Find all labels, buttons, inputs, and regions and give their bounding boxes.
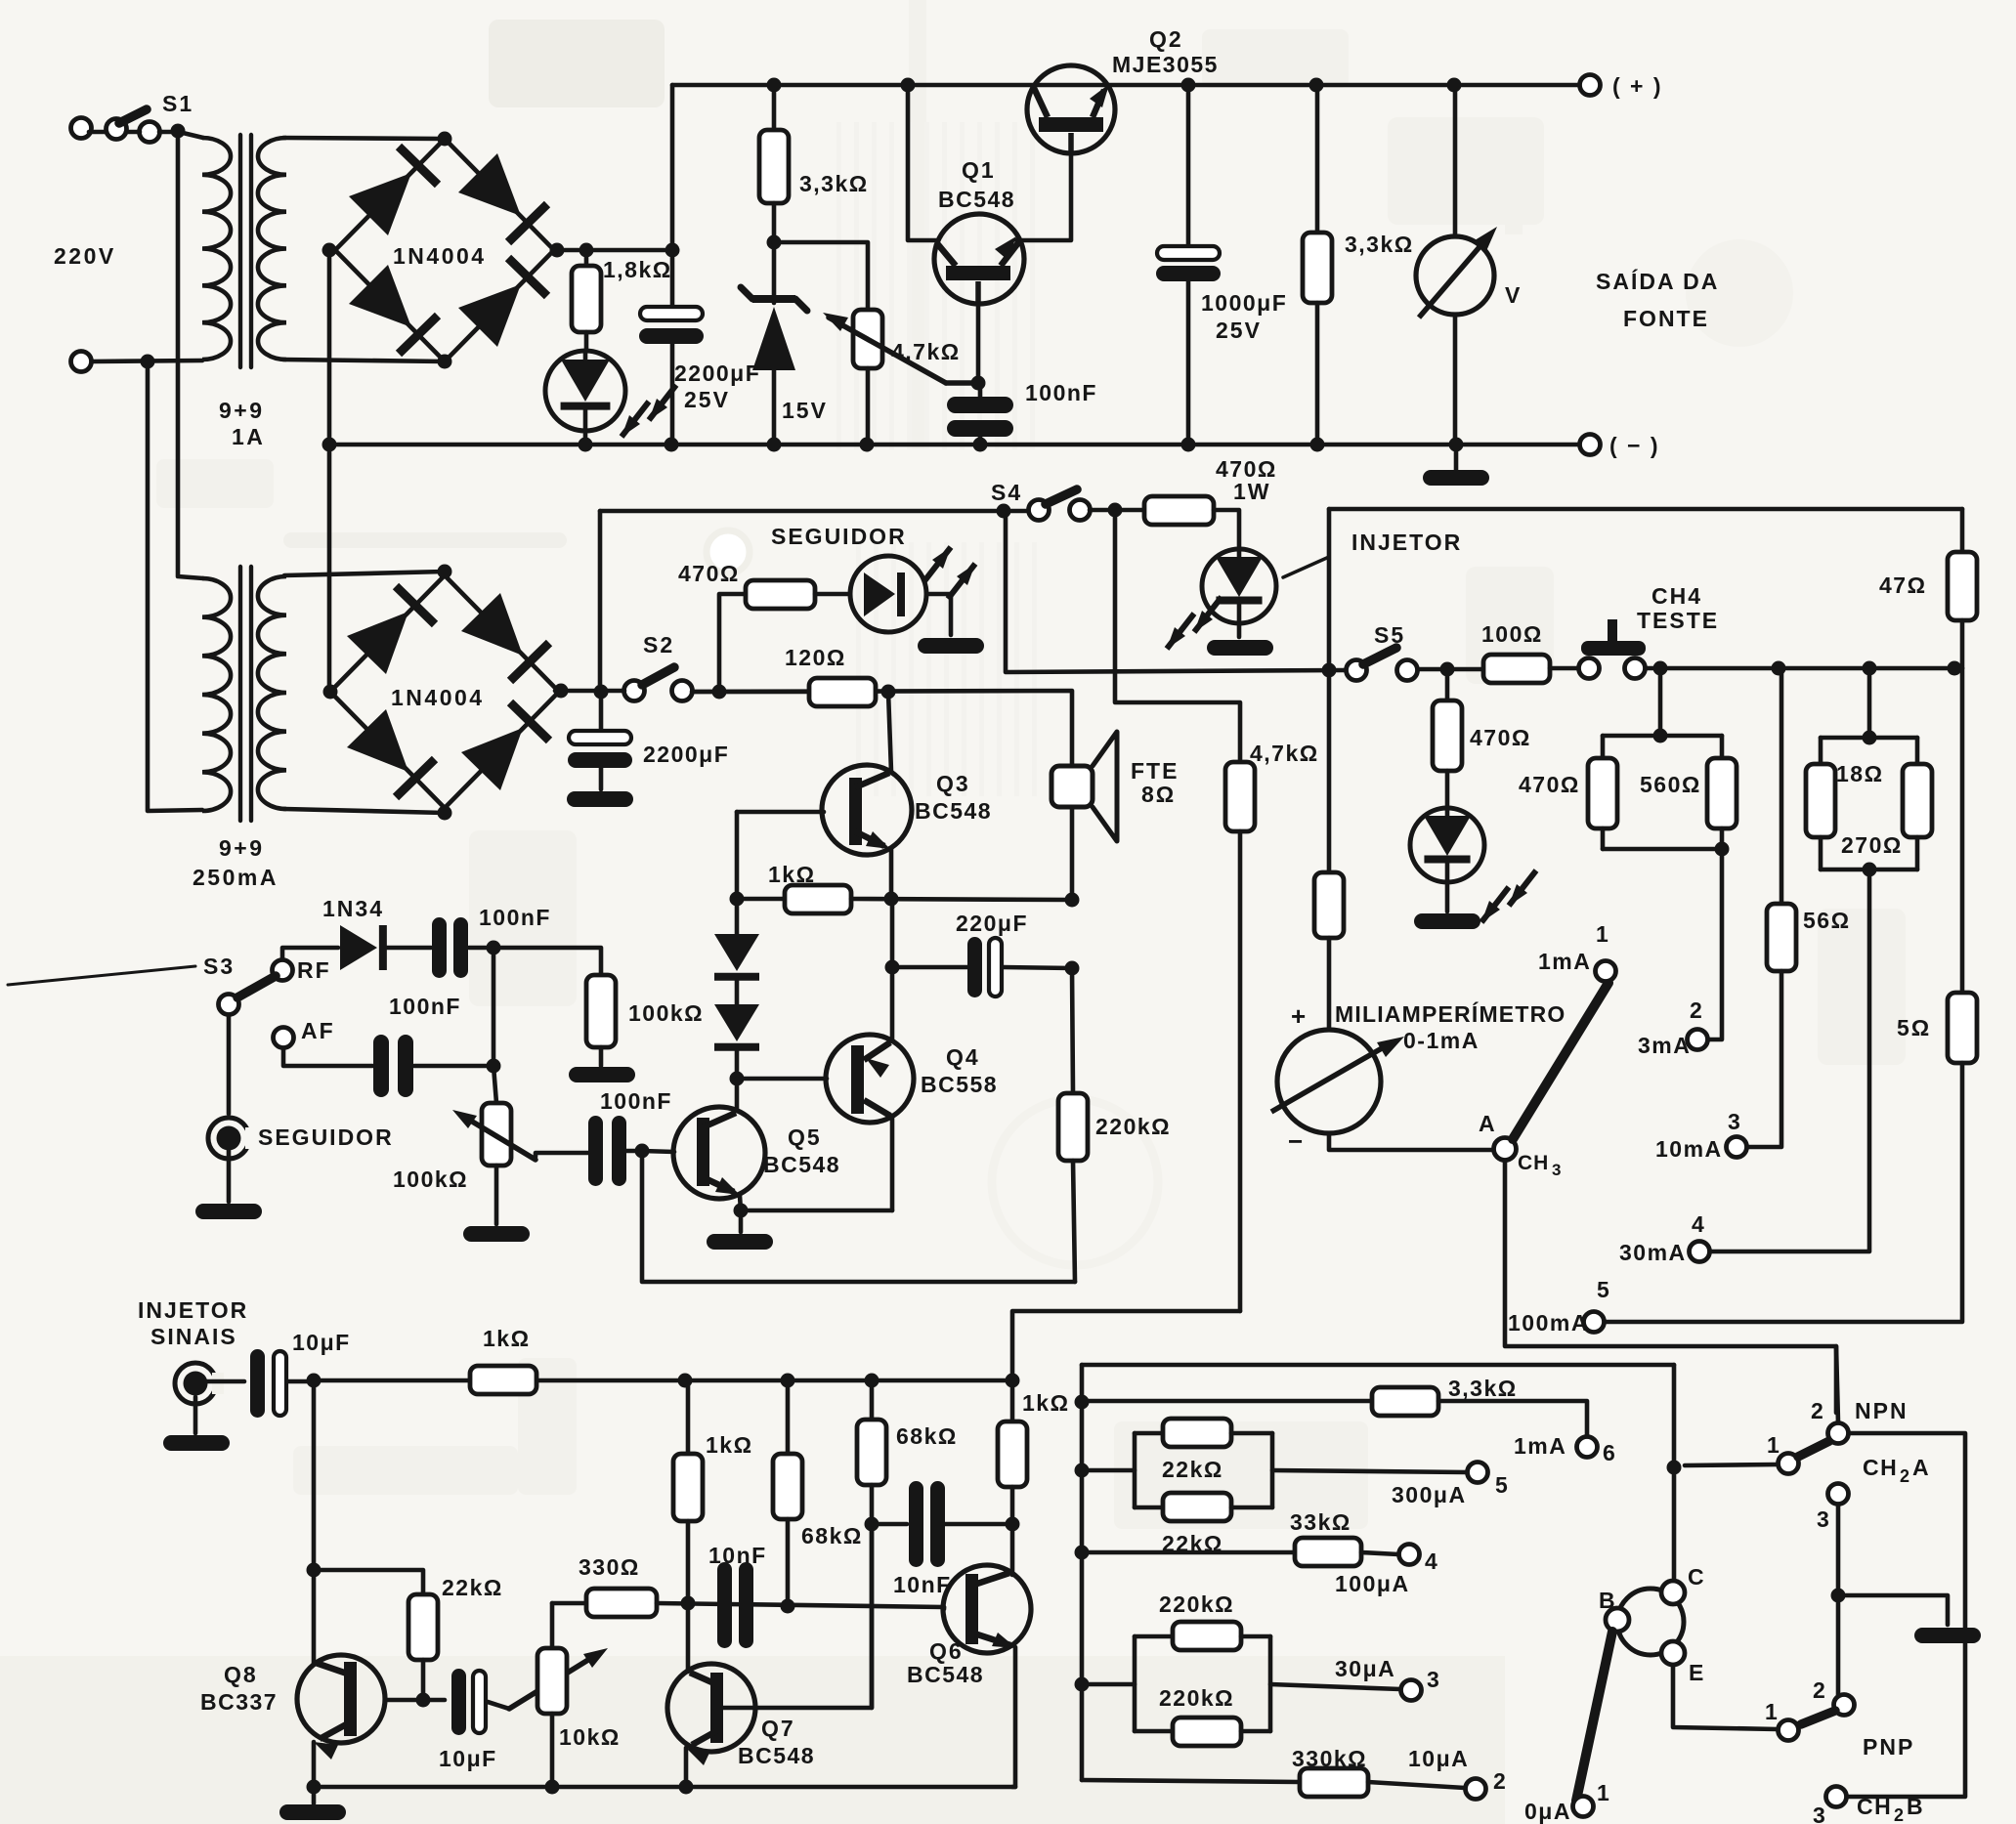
- switch CH2B PNP contact2: [1834, 1695, 1855, 1716]
- switch S5: [1347, 660, 1367, 681]
- ground pot 100k: [463, 1226, 530, 1242]
- pot wiper arrow to zener: [946, 380, 978, 386]
- svg-text:Q4: Q4: [946, 1044, 980, 1070]
- resistor 1k Q7 collector: [686, 1380, 691, 1454]
- ground seguidor LED: [918, 638, 984, 654]
- capacitor 10nF left: [717, 1562, 732, 1648]
- diode D3: [735, 899, 740, 934]
- ground 100k rf: [569, 1067, 635, 1082]
- wire Q6 base: [942, 1607, 947, 1609]
- wire 560 pair to 3mA: [1708, 849, 1722, 1039]
- transistor Q6 BC548: [1010, 1524, 1015, 1575]
- wire S4 line down to S2: [598, 511, 603, 692]
- svg-text:220kΩ: 220kΩ: [1159, 1685, 1234, 1711]
- transistor Q4 BC558: [826, 1035, 914, 1123]
- svg-text:SINAIS: SINAIS: [150, 1324, 237, 1349]
- wire S1 down to T2 primary: [178, 131, 203, 578]
- capacitor 220uF: [892, 965, 968, 970]
- node bus 22k: [1075, 1463, 1090, 1478]
- wire rf out to 100k: [493, 948, 601, 975]
- ground Q8: [312, 1787, 317, 1803]
- transformer T1 core: [238, 135, 242, 367]
- injector box left edge: [1327, 509, 1332, 670]
- svg-text:220kΩ: 220kΩ: [1095, 1114, 1171, 1139]
- svg-text:1kΩ: 1kΩ: [706, 1432, 753, 1458]
- svg-text:25V: 25V: [684, 387, 730, 412]
- wire Q5 base: [642, 1151, 674, 1152]
- svg-text:Q3: Q3: [936, 771, 970, 796]
- switch CH2A NPN contact: [1828, 1423, 1849, 1444]
- wire Q7 base: [723, 1524, 872, 1708]
- wire Q8 base right: [386, 1698, 445, 1703]
- svg-text:SEGUIDOR: SEGUIDOR: [771, 524, 907, 549]
- resistor meter series: [1314, 872, 1344, 938]
- svg-text:1: 1: [1597, 1780, 1611, 1805]
- node test row d: [1948, 661, 1962, 676]
- wire S2 to 120R: [692, 690, 809, 695]
- wire node down to T2 primary bottom: [148, 361, 202, 811]
- speaker FTE 8R: [1051, 766, 1093, 807]
- resistor 1k oscillator: [737, 897, 785, 902]
- svg-text:56Ω: 56Ω: [1803, 908, 1851, 933]
- capacitor 100nF Q1 base: [978, 383, 983, 397]
- svg-text:10μA: 10μA: [1408, 1746, 1469, 1771]
- node rf cap out: [487, 941, 501, 955]
- svg-text:Q8: Q8: [224, 1662, 258, 1687]
- ground Q5: [739, 1210, 744, 1232]
- svg-text:2200μF: 2200μF: [674, 361, 760, 386]
- svg-text:3,3kΩ: 3,3kΩ: [799, 171, 869, 196]
- socket terminal E: [1661, 1641, 1685, 1665]
- wire S4 feed line: [600, 509, 1029, 514]
- wire S1 to transformer: [89, 130, 107, 135]
- resistor 4.7k speaker feed: [1115, 510, 1240, 762]
- wire jack to cap: [207, 1379, 244, 1384]
- svg-text:0μA: 0μA: [1524, 1799, 1571, 1824]
- wire ground branch: [1838, 1595, 1948, 1625]
- capacitor 100nF to Q5: [588, 1116, 603, 1186]
- svg-text:2: 2: [1811, 1398, 1825, 1423]
- jack injetor center: [184, 1372, 208, 1396]
- svg-text:470Ω: 470Ω: [678, 561, 740, 586]
- switch CH2B position1: [1779, 1720, 1799, 1741]
- svg-text:10μF: 10μF: [292, 1330, 351, 1355]
- bridge rectifier B1 1N4004: [335, 139, 445, 250]
- terminal 3mA 2: [1688, 1030, 1708, 1050]
- node filter cap top: [665, 243, 680, 258]
- node test row c: [1863, 661, 1877, 676]
- node af cap out: [487, 1059, 501, 1074]
- node 2200uF bottom rail: [665, 438, 679, 452]
- transistor socket DUT: [1617, 1589, 1684, 1655]
- node bridge B1 left: [322, 243, 337, 258]
- potentiometer 10k: [550, 1603, 555, 1648]
- node Q3 emitter row: [884, 892, 899, 907]
- svg-text:TESTE: TESTE: [1637, 608, 1719, 633]
- ground under voltmeter: [1454, 445, 1459, 471]
- svg-text:1: 1: [1767, 1432, 1781, 1458]
- switch S2: [594, 685, 609, 700]
- wire Q1 emitter to Q2 base: [1016, 154, 1071, 240]
- svg-text:220V: 220V: [54, 243, 116, 269]
- light arrows LED power: [622, 402, 649, 437]
- svg-text:BC548: BC548: [915, 798, 992, 824]
- wire Q4 collector down: [890, 1116, 895, 1210]
- wire jack to ground: [227, 1151, 232, 1202]
- svg-text:1N34: 1N34: [322, 896, 384, 921]
- resistor 68k first: [870, 1380, 875, 1420]
- svg-text:MILIAMPERÍMETRO: MILIAMPERÍMETRO: [1335, 1000, 1566, 1027]
- terminal output plus: [1580, 75, 1601, 96]
- terminal input lower: [71, 352, 92, 372]
- terminal RF: [273, 960, 293, 981]
- switch CH2A position3: [1828, 1484, 1849, 1505]
- row 22k pair 300uA: [1082, 1468, 1135, 1473]
- terminal 10mA 3: [1727, 1137, 1747, 1158]
- zener diode 15V: [772, 242, 777, 303]
- socket terminal B: [1606, 1608, 1629, 1632]
- capacitor 100nF rf: [432, 917, 447, 978]
- svg-text:220kΩ: 220kΩ: [1159, 1591, 1234, 1617]
- terminal 1mA 6: [1577, 1437, 1598, 1458]
- svg-text:BC558: BC558: [921, 1072, 998, 1097]
- svg-text:S2: S2: [643, 632, 674, 657]
- wire Q3 base column: [735, 812, 740, 899]
- svg-text:SAÍDA DA: SAÍDA DA: [1596, 268, 1719, 294]
- svg-text:2: 2: [1894, 1805, 1905, 1824]
- wire bridge B1 left corner to negative rail: [329, 250, 333, 445]
- resistor pair 18R 270R: [1867, 668, 1872, 738]
- svg-text:15V: 15V: [782, 398, 828, 423]
- wire wiper to cap: [536, 1153, 588, 1157]
- node pot bottom rail: [545, 1780, 560, 1795]
- node bridge B2 top: [438, 565, 452, 579]
- svg-text:1,8kΩ: 1,8kΩ: [603, 257, 672, 282]
- svg-text:( + ): ( + ): [1612, 73, 1663, 99]
- node bridge B2 left: [323, 685, 338, 700]
- svg-text:1kΩ: 1kΩ: [768, 862, 816, 887]
- svg-text:3: 3: [1817, 1506, 1831, 1532]
- bridge rectifier B2 1N4004: [284, 572, 445, 575]
- svg-text:9+9: 9+9: [219, 398, 265, 423]
- svg-text:1mA: 1mA: [1514, 1433, 1566, 1459]
- svg-text:FONTE: FONTE: [1623, 306, 1709, 331]
- ground CH2: [1914, 1628, 1981, 1643]
- transformer T2 secondary winding: [258, 576, 286, 809]
- svg-text:0-1mA: 0-1mA: [1403, 1028, 1480, 1053]
- resistor 5R right edge: [1960, 668, 1965, 993]
- light arrows LED injetor: [1167, 614, 1194, 649]
- terminal 1mA position 1: [1596, 961, 1616, 982]
- positive supply rail: [672, 83, 1580, 88]
- svg-text:100μA: 100μA: [1335, 1571, 1410, 1596]
- network top edge: [1082, 1363, 1674, 1368]
- jack seguidor outer: [208, 1118, 249, 1159]
- svg-text:A: A: [1912, 1455, 1931, 1480]
- wire up to positive rail: [670, 85, 675, 250]
- svg-text:Q6: Q6: [929, 1638, 964, 1664]
- node 470 drop: [1440, 662, 1455, 677]
- svg-text:3,3kΩ: 3,3kΩ: [1448, 1376, 1518, 1401]
- svg-text:1kΩ: 1kΩ: [483, 1326, 531, 1351]
- pot 10k wiper arrow: [509, 1655, 596, 1709]
- transistor Q1 BC548: [934, 214, 1024, 304]
- resistor 1.8k: [584, 250, 589, 266]
- svg-text:6: 6: [1603, 1440, 1617, 1465]
- node CH2A feed: [1667, 1461, 1682, 1475]
- svg-text:3: 3: [1728, 1109, 1742, 1134]
- resistor 1k Q6 collector: [1010, 1380, 1015, 1421]
- terminal 100mA 5: [1584, 1312, 1605, 1333]
- row 3.3k 1mA: [1082, 1399, 1372, 1404]
- transistor Q2 MJE3055: [1027, 65, 1115, 153]
- svg-text:4: 4: [1425, 1548, 1439, 1574]
- node S5 to meter branch: [1322, 663, 1337, 678]
- ground LED injetor: [1207, 640, 1273, 656]
- node Q4 base: [730, 1072, 745, 1086]
- node bridge B2 bottom: [438, 806, 452, 821]
- svg-text:4: 4: [1692, 1211, 1706, 1237]
- pot 100k wiper arrow: [464, 1117, 536, 1160]
- svg-text:3,3kΩ: 3,3kΩ: [1345, 232, 1414, 257]
- node zener bottom rail: [767, 438, 782, 452]
- svg-text:BC548: BC548: [938, 187, 1015, 212]
- wire Q1 base down: [976, 304, 981, 383]
- LED test indicator: [1410, 808, 1484, 882]
- node Q5 base: [635, 1144, 650, 1159]
- svg-text:AF: AF: [301, 1018, 335, 1043]
- svg-text:INJETOR: INJETOR: [138, 1297, 248, 1323]
- svg-text:2: 2: [1690, 997, 1704, 1023]
- svg-text:S3: S3: [203, 954, 235, 979]
- svg-text:5Ω: 5Ω: [1897, 1015, 1931, 1040]
- wire bridge B2 right to S2: [555, 689, 624, 694]
- node bus 33k: [1075, 1546, 1090, 1560]
- svg-text:330Ω: 330Ω: [579, 1554, 640, 1580]
- capacitor 10uF Q8 out: [451, 1669, 466, 1735]
- svg-text:3: 3: [1813, 1803, 1827, 1824]
- transistor Q3 BC548: [888, 692, 891, 772]
- svg-text:INJETOR: INJETOR: [1351, 530, 1462, 555]
- svg-text:3: 3: [1427, 1667, 1441, 1692]
- rotary CH3 pivot: [1494, 1138, 1517, 1161]
- wire pot bottom to ground: [494, 1166, 499, 1224]
- node bus 3.3k: [1075, 1395, 1090, 1410]
- node zener top: [767, 235, 782, 250]
- svg-text:470Ω: 470Ω: [1519, 772, 1580, 797]
- svg-text:25V: 25V: [1216, 318, 1262, 343]
- meter circle miliamperimetro: [1277, 1030, 1381, 1133]
- wire rf-af junction down: [493, 948, 496, 1103]
- svg-text:SEGUIDOR: SEGUIDOR: [258, 1124, 394, 1150]
- node bridge B1 top: [438, 132, 452, 147]
- injector box top edge: [1329, 507, 1962, 512]
- svg-text:( − ): ( − ): [1609, 433, 1660, 458]
- node S1: [171, 124, 186, 139]
- node Q2 rail left: [1181, 78, 1196, 93]
- svg-text:22kΩ: 22kΩ: [1162, 1457, 1223, 1482]
- svg-text:S5: S5: [1374, 622, 1405, 648]
- svg-text:Q1: Q1: [962, 157, 996, 183]
- wire bus to CH2 column: [1672, 1365, 1677, 1467]
- switch CH2B lever: [1801, 1711, 1835, 1724]
- node Q8 base: [416, 1693, 431, 1708]
- transistor Q7 BC548: [686, 1603, 691, 1672]
- lever S3: [237, 976, 276, 997]
- wire rail up corner to 4.7k: [1012, 1311, 1240, 1380]
- node rail 68k2: [781, 1374, 795, 1388]
- resistor 22k: [408, 1594, 438, 1660]
- svg-text:10mA: 10mA: [1655, 1136, 1723, 1162]
- svg-text:22kΩ: 22kΩ: [442, 1575, 503, 1600]
- resistor pair 470R 560R: [1658, 668, 1663, 736]
- svg-text:FTE: FTE: [1131, 758, 1179, 784]
- ground 2200uF second: [567, 791, 633, 807]
- switch S3 pole: [219, 995, 239, 1015]
- svg-text:470Ω: 470Ω: [1470, 725, 1531, 750]
- svg-text:3mA: 3mA: [1638, 1033, 1691, 1058]
- diode 1N34: [340, 925, 377, 970]
- node voltmeter bottom rail: [1449, 438, 1464, 452]
- svg-text:1mA: 1mA: [1538, 949, 1591, 974]
- capacitor 100nF af: [373, 1035, 389, 1097]
- wire CH3 down: [1505, 1161, 1836, 1413]
- jack seguidor center: [217, 1126, 241, 1151]
- transformer T1 primary winding: [202, 138, 231, 360]
- svg-text:E: E: [1689, 1660, 1705, 1685]
- svg-text:−: −: [1288, 1126, 1304, 1156]
- svg-text:68kΩ: 68kΩ: [896, 1423, 958, 1449]
- row 330k 10uA: [1082, 1780, 1300, 1782]
- negative supply rail: [329, 443, 1580, 447]
- node lower: [141, 355, 155, 369]
- node 68k 10nF junction: [865, 1517, 879, 1532]
- terminal S1 third: [140, 122, 160, 143]
- wire T1 secondary bottom to bridge: [283, 360, 445, 361]
- svg-text:2200μF: 2200μF: [643, 742, 729, 767]
- svg-text:8Ω: 8Ω: [1141, 782, 1176, 807]
- wire speaker bottom: [1070, 807, 1075, 901]
- svg-text:4,7kΩ: 4,7kΩ: [1250, 741, 1319, 766]
- terminal 10uA 2: [1466, 1779, 1486, 1800]
- node S4 right: [1108, 503, 1123, 518]
- svg-text:1N4004: 1N4004: [391, 685, 485, 710]
- capacitor 2200uF 25V input filter: [670, 250, 675, 307]
- svg-text:18Ω: 18Ω: [1836, 761, 1884, 786]
- svg-text:B: B: [1599, 1588, 1617, 1613]
- capacitor 10uF input: [250, 1349, 265, 1418]
- svg-text:1N4004: 1N4004: [393, 243, 487, 269]
- node rail 1k right: [1006, 1374, 1020, 1388]
- svg-text:Q5: Q5: [788, 1124, 822, 1150]
- bridge B2 diamond: [330, 575, 445, 692]
- wire diode to cap: [387, 946, 431, 951]
- node 22k branch: [307, 1563, 322, 1578]
- svg-text:RF: RF: [297, 957, 331, 983]
- resistor 3.3k output bleeder: [1309, 78, 1324, 93]
- svg-text:MJE3055: MJE3055: [1112, 52, 1219, 77]
- switch CH2A position1: [1779, 1454, 1799, 1474]
- svg-text:C: C: [1688, 1564, 1706, 1590]
- switch CH2A lever: [1798, 1441, 1829, 1457]
- ground jack injetor: [163, 1435, 230, 1451]
- svg-text:2: 2: [1813, 1677, 1827, 1703]
- terminal 100uA 4: [1399, 1545, 1420, 1565]
- LED power indicator: [545, 351, 625, 431]
- node 120R left: [712, 685, 727, 700]
- wire RF to diode: [282, 948, 338, 959]
- svg-text:10μF: 10μF: [439, 1746, 497, 1771]
- svg-text:10kΩ: 10kΩ: [559, 1724, 621, 1750]
- wire 100R to CH4: [1550, 666, 1579, 671]
- terminal CH2B 3: [1826, 1787, 1847, 1807]
- terminal 0uA 1: [1573, 1797, 1594, 1817]
- capacitor 10nF right: [872, 1522, 907, 1527]
- resistor 470R seguidor: [719, 594, 746, 692]
- wire jack injetor ground: [193, 1397, 198, 1433]
- svg-text:NPN: NPN: [1855, 1398, 1909, 1423]
- bottom ground rail: [314, 1785, 1015, 1790]
- node ground branch: [1831, 1589, 1846, 1603]
- resistor 470R led drop: [1445, 669, 1450, 700]
- LED injetor indicator: [1202, 549, 1276, 623]
- node test row a: [1653, 661, 1668, 676]
- node rail 68k1: [865, 1374, 879, 1388]
- light arrows LED test: [1481, 887, 1509, 922]
- node speaker column row: [1065, 893, 1080, 908]
- wire S5 row: [1006, 511, 1345, 672]
- node Q8 emitter rail: [307, 1780, 322, 1795]
- rotary CH2 lever from B: [1576, 1632, 1612, 1801]
- terminal AF: [274, 1028, 294, 1048]
- node LED bottom: [579, 438, 593, 452]
- node bus 220k: [1075, 1677, 1090, 1692]
- node test row b: [1772, 661, 1786, 676]
- svg-text:A: A: [1479, 1111, 1497, 1136]
- transistor Q5 BC548: [673, 1107, 765, 1199]
- wire NPN up: [1836, 1346, 1838, 1422]
- wire S3 pole down to jack: [227, 1015, 232, 1114]
- wire meter bottom to CH3: [1329, 1133, 1493, 1150]
- svg-text:1: 1: [1765, 1699, 1780, 1724]
- wire bus to socket C: [1672, 1467, 1677, 1583]
- svg-text:CH4: CH4: [1651, 583, 1702, 609]
- supply rail oscillator bottom: [314, 1379, 1012, 1383]
- svg-text:BC548: BC548: [763, 1152, 840, 1177]
- node 1.8k top: [579, 243, 594, 258]
- resistor 47R right edge: [1960, 509, 1965, 552]
- push button CH4 TESTE: [1579, 658, 1600, 679]
- wire Q5 emitter to Q4 collector: [741, 1209, 892, 1213]
- row 33k 100uA: [1082, 1550, 1295, 1555]
- terminal output minus: [1580, 435, 1601, 455]
- wire AF row: [283, 1048, 372, 1066]
- row 220k pair 30uA: [1082, 1682, 1135, 1687]
- wire Q5 collector: [735, 1109, 740, 1114]
- switch S1: [119, 109, 147, 123]
- wire feedback bottom: [642, 1151, 1075, 1282]
- svg-text:+: +: [1291, 1001, 1307, 1031]
- svg-text:5: 5: [1597, 1277, 1611, 1302]
- wire position3 down: [1836, 1505, 1841, 1595]
- light arrows seguidor: [923, 547, 951, 582]
- resistor 220k feedback: [1072, 968, 1073, 1093]
- svg-text:100Ω: 100Ω: [1481, 621, 1543, 647]
- svg-text:S4: S4: [991, 480, 1022, 505]
- resistor 100k rf load: [586, 975, 616, 1047]
- wire seguidor LED to ground: [926, 594, 951, 635]
- terminal 30mA 4: [1690, 1242, 1710, 1262]
